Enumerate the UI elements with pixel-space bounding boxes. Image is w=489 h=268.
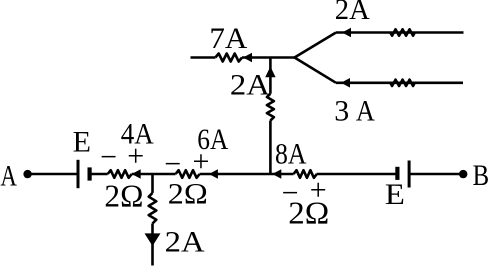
wire R4 down to bottom end bbox=[151, 224, 154, 266]
wire battery to R1 bbox=[90, 173, 108, 176]
label 8A bbox=[275, 138, 307, 171]
svg-text:−: − bbox=[100, 140, 117, 173]
label 2A bottom bbox=[165, 226, 205, 259]
label 3A bbox=[334, 95, 375, 128]
current arrow 6A bbox=[209, 169, 218, 179]
polarity plus R2 bbox=[193, 145, 210, 178]
svg-text:2Ω: 2Ω bbox=[104, 178, 143, 214]
svg-text:2A: 2A bbox=[230, 68, 270, 101]
polarity plus R1 bbox=[127, 140, 144, 173]
svg-text:A: A bbox=[356, 95, 375, 128]
current arrow 7A bbox=[243, 53, 252, 63]
node B terminal dot bbox=[459, 170, 467, 178]
current arrow 2A top bbox=[342, 28, 351, 38]
value label 2ohm R3 bbox=[288, 194, 329, 230]
battery E right (long plate) bbox=[408, 161, 411, 188]
label node A bbox=[0, 160, 17, 193]
label 7A bbox=[209, 22, 247, 55]
resistor R4 vertical zigzag bbox=[149, 193, 157, 224]
battery E right (short plate) bbox=[395, 167, 399, 180]
svg-text:7A: 7A bbox=[209, 22, 247, 55]
svg-text:8A: 8A bbox=[275, 138, 307, 171]
svg-text:−: − bbox=[164, 147, 181, 180]
value label 2ohm R2 bbox=[168, 178, 208, 211]
wire bottom branch bbox=[336, 82, 463, 85]
svg-text:E: E bbox=[385, 178, 405, 211]
svg-text:2A: 2A bbox=[335, 0, 370, 26]
resistor R8 zigzag on bottom branch bbox=[390, 80, 415, 86]
current arrow 2A downward bbox=[145, 233, 161, 246]
svg-text:B: B bbox=[473, 159, 489, 192]
label 2A top bbox=[335, 0, 370, 26]
svg-text:A: A bbox=[0, 160, 17, 193]
wire A to left battery bbox=[28, 173, 78, 176]
label 6A bbox=[197, 123, 228, 156]
wire R3 to right battery bbox=[317, 173, 398, 176]
svg-text:2A: 2A bbox=[165, 226, 205, 259]
svg-text:2Ω: 2Ω bbox=[168, 178, 208, 211]
battery E left (long plate) bbox=[77, 160, 80, 188]
value label 2ohm R1 bbox=[104, 178, 143, 214]
polarity minus R3 bbox=[282, 177, 299, 210]
label E left bbox=[73, 126, 91, 159]
wire riser bottom segment to junction J2 bbox=[269, 121, 272, 176]
svg-text:2Ω: 2Ω bbox=[288, 194, 329, 230]
current arrow 3A bbox=[341, 78, 350, 88]
resistor R3 2ohm zigzag bbox=[294, 170, 317, 178]
resistor R5 zigzag on 7A branch bbox=[215, 54, 242, 62]
svg-text:+: + bbox=[127, 140, 144, 173]
polarity minus R2 bbox=[164, 147, 181, 180]
polarity minus R1 bbox=[100, 140, 117, 173]
node A terminal dot bbox=[23, 170, 31, 178]
wire diagonal to bottom branch bbox=[295, 58, 337, 83]
resistor R2 2ohm zigzag bbox=[176, 170, 200, 178]
wire 7A branch left segment bbox=[191, 56, 216, 59]
wire 7A branch to fan vertex bbox=[242, 56, 295, 59]
battery E left (short plate) bbox=[87, 167, 91, 180]
resistor R1 2ohm zigzag bbox=[108, 170, 132, 178]
current arrow 8A into junction J2 bbox=[272, 169, 281, 179]
resistor R6 vertical zigzag on riser bbox=[267, 94, 274, 121]
resistor R7 zigzag on top branch bbox=[390, 29, 415, 35]
label 4A bbox=[121, 118, 154, 151]
svg-text:3: 3 bbox=[334, 95, 349, 128]
current arrow 4A bbox=[132, 169, 141, 179]
polarity plus R3 bbox=[310, 174, 327, 207]
wire top branch bbox=[336, 31, 464, 34]
wire diagonal to top branch bbox=[295, 33, 337, 58]
wire R1 to R2 through junction J1 bbox=[132, 173, 176, 176]
svg-text:E: E bbox=[73, 126, 91, 159]
wire riser top segment with junction bbox=[269, 58, 272, 94]
label E right bbox=[385, 178, 405, 211]
label 2A middle bbox=[230, 68, 270, 101]
wire right battery to B bbox=[409, 173, 463, 176]
wire junction J1 down to R4 bbox=[151, 174, 154, 193]
wire R2 to R3 through junction J2 bbox=[200, 173, 294, 176]
current arrow 2A upward bbox=[265, 67, 275, 78]
label node B bbox=[473, 159, 489, 192]
